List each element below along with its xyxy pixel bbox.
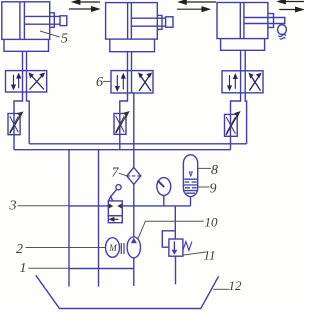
pressure gauge stem	[163, 195, 165, 206]
accumulator gas valve mark	[189, 172, 192, 176]
relief valve 11 body	[169, 239, 183, 256]
throttle valve (middle) body	[114, 114, 126, 135]
motion arrow pair 3 lower	[279, 9, 299, 11]
filter 7 element line	[127, 175, 141, 177]
wire: middle cylinder to valve 6 pipes	[128, 52, 132, 71]
valve 6 (middle directional valve)	[111, 71, 153, 93]
unloading valve 3 body	[108, 201, 122, 216]
leader line label 8	[198, 167, 211, 169]
relief valve 11 pilot loop	[162, 231, 175, 247]
unloading valve 3 port arrows	[110, 205, 122, 208]
cylinder (middle) rod end cap	[166, 17, 173, 27]
cylinder (right) body	[217, 3, 268, 39]
svg-text:9: 9	[210, 182, 217, 197]
throttle (left) X	[10, 116, 19, 132]
leader line label 10	[138, 221, 204, 239]
unloading valve 3 lever arm	[110, 189, 117, 197]
wire: right cylinder to valve pipes	[241, 50, 246, 71]
svg-text:2: 2	[16, 242, 23, 257]
cylinder (right) roller	[278, 25, 287, 35]
valve 6 left-position arrows	[117, 75, 123, 90]
throttle valve (left) body	[8, 114, 20, 135]
relief valve 11 internal arrow	[173, 241, 176, 253]
unloading valve 3 lever knob	[116, 185, 121, 190]
wire: pump pressure line (main vertical)	[133, 93, 135, 269]
tank 12 outline	[36, 275, 219, 308]
leader line label 1	[28, 267, 68, 269]
svg-text:1: 1	[20, 261, 27, 276]
wire: tank return line A	[68, 150, 70, 269]
cylinder 5 rod end cap	[60, 16, 67, 26]
cylinder (right) rod	[244, 18, 285, 24]
motion arrow pair 2 upper	[182, 1, 216, 3]
pump flow triangle	[131, 238, 137, 244]
wire: tank dip B	[98, 269, 100, 287]
leader line label 2	[26, 247, 106, 249]
coupling	[121, 243, 124, 254]
wire: tank join line	[69, 268, 134, 270]
cylinder (right) piston	[240, 3, 244, 39]
throttle (right) adjust arrow	[226, 115, 238, 135]
wire: tank dip A	[68, 269, 70, 287]
cylinder (middle) piston	[128, 3, 132, 40]
leader line label 11	[184, 252, 206, 255]
unloading valve 3 lever fulcrum	[108, 197, 112, 201]
cylinder (middle) mounting plate	[110, 39, 155, 52]
cylinder 5 rod	[24, 16, 60, 24]
unloading valve 3 lower section	[108, 216, 122, 223]
cylinder (right) mounting plate	[221, 39, 265, 51]
relief valve 11 drain	[175, 256, 177, 284]
cylinder (middle) rod	[131, 18, 165, 26]
throttle (right) X	[226, 117, 235, 134]
relief valve 11 feed line	[174, 206, 176, 239]
cylinder (middle) gland	[157, 15, 162, 29]
svg-text:7: 7	[112, 166, 120, 181]
valve V3 (right directional valve)	[222, 71, 263, 93]
svg-text:M: M	[108, 243, 117, 253]
throttle (middle) X	[116, 116, 125, 132]
pressure gauge	[157, 178, 171, 196]
leader line label 3	[18, 205, 69, 207]
filter 7 diamond	[127, 167, 141, 184]
valve V3 crossed-position X	[250, 74, 261, 91]
svg-text:8: 8	[211, 163, 218, 178]
svg-text:5: 5	[61, 32, 68, 47]
leader line label 6	[103, 80, 111, 82]
cylinder 5 (left) body	[2, 2, 50, 40]
valve V1 (left directional valve)	[6, 71, 47, 92]
valve 6 crossed-position X	[139, 74, 151, 92]
motion arrow pair 1 lower	[69, 8, 96, 10]
leader line label 5	[40, 31, 60, 37]
motion arrow pair 3 upper	[282, 1, 305, 3]
svg-text:12: 12	[229, 278, 243, 293]
cylinder 5 gland	[50, 13, 55, 27]
valve V3 left-position arrows	[230, 75, 236, 89]
relief valve 11 spring	[183, 242, 192, 251]
accumulator liquid lines	[184, 179, 197, 193]
svg-text:3: 3	[9, 199, 17, 214]
wire: cylinder 5 to valve 6a pipes	[23, 51, 27, 70]
leader line label 12	[213, 288, 228, 290]
svg-text:6: 6	[96, 75, 103, 90]
wire: upper bus line	[29, 143, 246, 145]
valve V1 left-position arrows	[14, 75, 19, 88]
pressure gauge needle	[158, 181, 165, 187]
wire: tank dip C	[133, 269, 135, 287]
svg-text:11: 11	[204, 248, 216, 263]
throttle (middle) adjust arrow	[116, 115, 127, 133]
svg-text:10: 10	[205, 215, 219, 230]
throttle (left) adjust arrow	[10, 115, 21, 133]
wire: tank return line B	[98, 150, 100, 269]
valve V1 crossed-position X	[30, 74, 45, 90]
unloading valve 3 closed arrow	[112, 218, 119, 220]
leader line label 9	[198, 186, 210, 188]
motion arrow pair 2 lower	[177, 8, 206, 10]
leader line label 7	[119, 173, 127, 176]
cylinder (right) roller hatch	[278, 35, 286, 40]
pump 10 circle	[127, 237, 140, 258]
accumulator stem	[190, 197, 192, 206]
accumulator 8 capsule	[183, 155, 197, 197]
wire: valve 6 lower ports	[120, 93, 128, 150]
motion arrow pair 1 upper	[76, 1, 100, 3]
cylinder (right) gland	[268, 14, 274, 28]
cylinder (middle) body	[106, 3, 158, 40]
wire: valve V1 lower ports jog	[14, 92, 29, 150]
unloading valve 3 pressure line	[69, 205, 191, 207]
wire: valve V3 lower ports jog	[231, 93, 247, 150]
wire: lower bus line	[14, 149, 231, 151]
cylinder 5 mounting plate	[4, 39, 49, 51]
throttle valve (right) body	[225, 114, 238, 136]
motor 2 circle	[106, 238, 120, 258]
cylinder 5 piston	[20, 2, 25, 40]
